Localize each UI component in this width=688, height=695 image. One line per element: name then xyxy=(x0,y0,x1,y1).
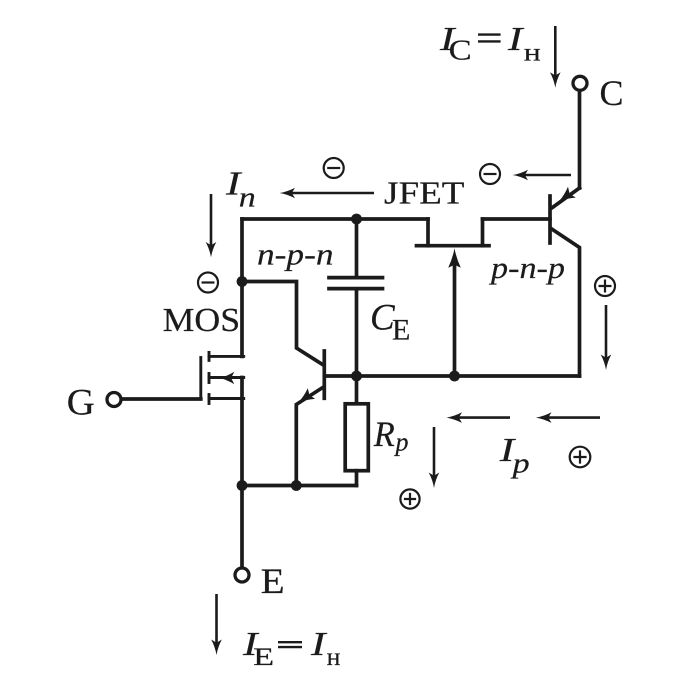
node bottom n-p-n emitter junction xyxy=(291,480,302,491)
svg-text:G: G xyxy=(67,383,95,424)
svg-text:JFET: JFET xyxy=(384,174,465,210)
svg-text:I: I xyxy=(310,626,328,663)
resistor R_p body xyxy=(345,404,368,471)
wire emitter terminal lead xyxy=(240,486,244,569)
MOS drain tick xyxy=(208,352,211,360)
JFET gate arrowhead xyxy=(448,248,461,268)
MOS source stub xyxy=(209,397,244,400)
current arrow I_E (down) xyxy=(215,594,218,644)
capacitor C_E bottom lead xyxy=(355,290,359,376)
svg-text:C: C xyxy=(600,73,624,113)
JFET gate arrow shaft xyxy=(453,258,457,376)
JFET channel bar xyxy=(417,244,490,248)
MOS drain stub xyxy=(209,355,244,358)
MOS gate line xyxy=(199,358,202,400)
current arrow electron flow left (right, to p-n-p) xyxy=(524,174,571,177)
node top C_E junction xyxy=(351,214,362,225)
wire MOS drain vertical xyxy=(240,219,244,356)
resistor R_p bottom lead xyxy=(355,471,359,486)
current arrow I_C (down) xyxy=(554,26,557,76)
svg-text:MOS: MOS xyxy=(163,302,241,339)
current arrow I_n (down) xyxy=(210,194,213,246)
wire n-p-n emitter xyxy=(296,387,323,486)
wire top rail xyxy=(242,217,428,221)
arrowhead p-n-p emitter xyxy=(559,187,576,202)
svg-text:E: E xyxy=(261,561,285,601)
capacitor C_E bottom plate xyxy=(329,287,383,291)
svg-text:p: p xyxy=(394,428,409,457)
wire collector terminal lead xyxy=(578,90,582,188)
current arrow I_p right segment xyxy=(548,416,601,419)
node bottom MOS source junction xyxy=(237,480,248,491)
plus sign circle (below R_p arrow) xyxy=(400,489,419,508)
current arrow hole flow down (right of p-n-p) xyxy=(605,305,608,359)
terminal C circle xyxy=(573,76,587,90)
wire bottom rail xyxy=(242,484,357,488)
node n-p-n collector branch junction xyxy=(237,276,248,287)
current arrow hole flow down (left of I_p) xyxy=(433,427,436,477)
wire gate lead xyxy=(121,397,201,401)
plus sign circle (right of p-n-p) xyxy=(595,276,615,296)
arrowhead MOS body xyxy=(220,372,235,384)
capacitor C_E top plate xyxy=(329,276,383,280)
svg-text:н: н xyxy=(327,644,341,671)
plus sign circle (right of I_p) xyxy=(570,447,591,468)
svg-text:n-p-n: n-p-n xyxy=(257,237,334,272)
svg-text:C: C xyxy=(449,36,472,67)
resistor R_p top lead xyxy=(355,376,359,404)
MOS body tick xyxy=(208,374,211,383)
svg-text:n: n xyxy=(239,183,256,214)
minus sign circle (above mid arrow) xyxy=(324,158,344,178)
minus sign circle (left, above MOS) xyxy=(198,273,218,293)
JFET left contact xyxy=(426,219,430,246)
JFET right contact xyxy=(481,219,485,246)
arrowhead n-p-n emitter xyxy=(298,388,315,402)
transistor Q2 p-n-p base bar xyxy=(548,196,552,243)
svg-text:н: н xyxy=(524,39,541,66)
wire JFET to p-n-p base xyxy=(483,217,551,221)
wire p-n-p collector xyxy=(552,229,580,376)
MOS body stub xyxy=(209,376,244,379)
wire middle rail xyxy=(326,374,580,378)
svg-text:R: R xyxy=(373,414,395,454)
svg-text:p-n-p: p-n-p xyxy=(489,250,565,285)
svg-text:E: E xyxy=(253,644,274,671)
terminal G circle xyxy=(107,393,121,407)
current arrow electron flow left (mid, to I_n) xyxy=(291,192,374,195)
wire p-n-p emitter diagonal xyxy=(552,188,579,208)
minus sign circle (right, left of p-n-p emitter arrow) xyxy=(480,164,500,184)
capacitor C_E top lead xyxy=(355,219,359,276)
wire n-p-n collector branch xyxy=(242,282,323,365)
MOS source tick xyxy=(208,395,211,404)
MOS source vertical xyxy=(240,378,244,486)
svg-text:p: p xyxy=(510,447,529,479)
node C_E bottom junction xyxy=(351,371,362,382)
terminal E circle xyxy=(235,568,249,582)
svg-text:I: I xyxy=(507,21,525,58)
node JFET gate arrow junction xyxy=(449,371,460,382)
current arrow I_p left segment xyxy=(458,416,510,419)
svg-text:E: E xyxy=(392,313,410,346)
transistor Q1 n-p-n base bar xyxy=(322,351,326,398)
